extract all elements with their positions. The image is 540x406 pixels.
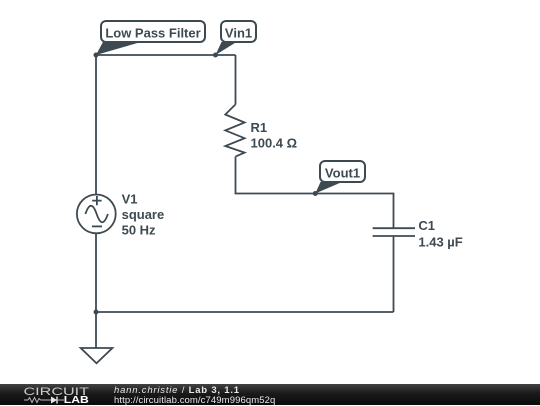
svg-text:LAB: LAB [64, 394, 89, 405]
svg-text:square: square [122, 207, 165, 222]
svg-text:Low Pass Filter: Low Pass Filter [105, 26, 200, 41]
svg-text:50 Hz: 50 Hz [122, 223, 156, 238]
svg-text:100.4 Ω: 100.4 Ω [251, 136, 298, 151]
svg-text:1.43 µF: 1.43 µF [418, 234, 462, 249]
svg-text:R1: R1 [251, 120, 268, 135]
svg-text:V1: V1 [122, 191, 138, 206]
svg-text:Vout1: Vout1 [325, 165, 360, 180]
svg-text:Vin1: Vin1 [225, 26, 252, 41]
svg-text:C1: C1 [418, 218, 435, 233]
